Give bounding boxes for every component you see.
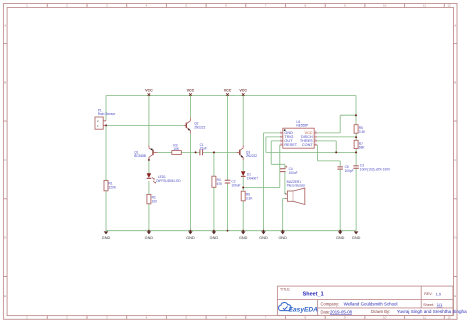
wire rail drop to P1 pin1 bbox=[105, 96, 107, 121]
svg-text:CONT: CONT bbox=[302, 143, 313, 147]
svg-text:100uF: 100uF bbox=[231, 184, 240, 188]
resistor R3 bbox=[172, 143, 182, 154]
wire rail drop through C2 to GND rail bbox=[227, 96, 229, 231]
svg-text:GND: GND bbox=[336, 236, 345, 240]
resistor R5 bbox=[354, 125, 366, 135]
svg-text:NE555P: NE555P bbox=[296, 124, 308, 128]
svg-text:11: 11 bbox=[423, 4, 426, 8]
svg-text:10: 10 bbox=[383, 316, 387, 320]
wire R5 to R7 bbox=[355, 133, 357, 140]
svg-text:GND: GND bbox=[259, 236, 268, 240]
wire C4 to buzzer plus pin bbox=[285, 172, 288, 194]
svg-text:3.3K: 3.3K bbox=[359, 130, 366, 134]
ground 5 bbox=[239, 231, 248, 240]
svg-text:B: B bbox=[454, 81, 456, 85]
wire R3 to C1 bbox=[181, 151, 199, 153]
svg-text:E: E bbox=[454, 294, 456, 298]
svg-text:1N4007: 1N4007 bbox=[247, 176, 258, 180]
svg-text:100: 100 bbox=[152, 200, 158, 204]
wire GND bottom rail bbox=[106, 230, 356, 232]
svg-text:Date:: Date: bbox=[321, 309, 331, 314]
capacitor C3 bbox=[353, 163, 391, 171]
svg-text:12: 12 bbox=[447, 316, 451, 320]
svg-text:DIFFSUD06 LED: DIFFSUD06 LED bbox=[156, 179, 181, 183]
svg-text:VCC: VCC bbox=[145, 88, 153, 92]
svg-text:10: 10 bbox=[383, 4, 387, 8]
wire U1 TRIG pin loop bbox=[266, 137, 280, 153]
resistor R6 bbox=[241, 191, 253, 201]
wire U1 CONT pin to C5 bbox=[318, 145, 341, 167]
capacitor C1 bbox=[200, 143, 207, 156]
wire C1 to Q3 base bbox=[203, 151, 236, 153]
svg-text:12: 12 bbox=[447, 4, 451, 8]
resistor R4 bbox=[212, 176, 223, 187]
svg-text:EasyEDA: EasyEDA bbox=[289, 306, 319, 313]
ground 1 bbox=[102, 231, 111, 240]
svg-text:2019-05-08: 2019-05-08 bbox=[330, 309, 353, 314]
wire D1 to R6 and R6 to GND rail bbox=[242, 177, 244, 231]
transistor Q2 2N2222 bbox=[184, 118, 206, 133]
svg-text:GND: GND bbox=[352, 236, 361, 240]
wire P1 pin2 to Q2 base bbox=[106, 124, 184, 126]
svg-text:220K: 220K bbox=[109, 186, 117, 190]
svg-text:B: B bbox=[4, 81, 6, 85]
svg-text:67K: 67K bbox=[217, 182, 224, 186]
svg-text:Piezo Buzzer: Piezo Buzzer bbox=[287, 183, 307, 187]
wire LED1 to R2 and R2 to GND rail bbox=[148, 181, 150, 231]
svg-text:10K: 10K bbox=[173, 147, 180, 151]
wire R4 column bbox=[213, 152, 215, 230]
ground 6 bbox=[259, 231, 268, 240]
svg-text:E: E bbox=[4, 294, 6, 298]
svg-text:VCC: VCC bbox=[224, 88, 232, 92]
svg-text:11: 11 bbox=[423, 316, 426, 320]
wire R7 to C3 bbox=[355, 149, 357, 166]
wire rail drop to Q1 collector bbox=[148, 96, 150, 146]
svg-text:BC548B: BC548B bbox=[134, 154, 146, 158]
node GND rail junctions bbox=[148, 230, 341, 232]
svg-text:1.0: 1.0 bbox=[436, 292, 441, 296]
op-amp U1 NE555P bbox=[280, 120, 317, 148]
node R4 tap junction bbox=[213, 151, 215, 153]
wire D1/R6 node to U1 RESET drop bbox=[243, 187, 280, 189]
wire buzzer minus pin to GND rail bbox=[283, 199, 286, 231]
svg-text:1/1: 1/1 bbox=[437, 302, 443, 307]
svg-text:GND: GND bbox=[102, 236, 111, 240]
svg-text:2N2222: 2N2222 bbox=[246, 154, 257, 158]
node P1 pin2 junction bbox=[105, 124, 107, 126]
wire Q3 emitter to D1 bbox=[242, 160, 244, 171]
wire C3 to GND rail bbox=[355, 169, 357, 231]
ground 9 bbox=[352, 231, 361, 240]
svg-text:-: - bbox=[285, 197, 286, 201]
wire Q1 base to R3 bbox=[158, 151, 172, 153]
transistor Q3 2N2222 bbox=[236, 145, 257, 160]
power VCC flag 4 bbox=[239, 88, 247, 96]
svg-text:10nF(103) ±5% 100V: 10nF(103) ±5% 100V bbox=[360, 167, 391, 171]
svg-text:GND: GND bbox=[186, 236, 195, 240]
svg-text:Welland Gouldsmith School: Welland Gouldsmith School bbox=[344, 302, 398, 307]
svg-text:Drawn By:: Drawn By: bbox=[371, 309, 390, 314]
LED LED1 bbox=[147, 173, 182, 183]
ground 2 bbox=[145, 231, 154, 240]
wire U1 GND pin to ground bbox=[264, 133, 280, 231]
node VCC pin rail junction bbox=[355, 114, 357, 116]
transistor Q1 BC548B bbox=[134, 145, 157, 160]
ground 4 bbox=[210, 231, 219, 240]
svg-text:68K: 68K bbox=[359, 146, 366, 150]
wire U1 THRES pin jog bbox=[317, 141, 336, 153]
svg-text:3.3K: 3.3K bbox=[246, 197, 253, 201]
resistor R1 bbox=[104, 180, 117, 190]
resistor R2 bbox=[147, 194, 157, 203]
svg-text:REV:: REV: bbox=[424, 292, 432, 296]
svg-text:GND: GND bbox=[145, 236, 154, 240]
node Q1 emitter junction bbox=[148, 159, 150, 161]
power VCC flag 1 bbox=[145, 88, 153, 96]
svg-text:A: A bbox=[4, 24, 6, 28]
svg-text:GND: GND bbox=[210, 236, 219, 240]
svg-text:VCC: VCC bbox=[187, 88, 195, 92]
node C1 left junction bbox=[195, 151, 197, 153]
wire U1 VCC pin to top right bbox=[317, 115, 356, 133]
wire TRIG/THRES long net under U1 bbox=[266, 151, 356, 153]
ground 8 bbox=[336, 231, 345, 240]
svg-text:TITLE:: TITLE: bbox=[280, 288, 291, 292]
wire rail right corner down to R5 bbox=[355, 96, 357, 125]
wire C5 to GND rail bbox=[339, 169, 341, 230]
wire rail drop to Q2 collector bbox=[189, 96, 191, 119]
capacitor C4 polarized bbox=[280, 166, 298, 175]
power VCC flag 3 bbox=[224, 88, 232, 96]
capacitor C5 bbox=[337, 165, 353, 173]
svg-text:100pF: 100pF bbox=[345, 169, 354, 173]
svg-text:A: A bbox=[454, 24, 456, 28]
svg-text:GND: GND bbox=[278, 236, 287, 240]
node R7/C3/TRIG junction bbox=[355, 151, 357, 153]
resistor R7 bbox=[354, 140, 365, 149]
wire Q1 emitter to LED1 bbox=[148, 158, 150, 176]
node D1/R6/OUT junction bbox=[242, 187, 244, 189]
buzzer BUZZER1 bbox=[285, 180, 307, 205]
svg-text:Sheet_1: Sheet_1 bbox=[303, 292, 324, 298]
svg-text:RESET: RESET bbox=[284, 143, 297, 147]
power VCC flag 2 bbox=[187, 88, 195, 96]
connector P1 Rain Sensor bbox=[95, 108, 116, 129]
svg-text:2N2222: 2N2222 bbox=[194, 125, 205, 129]
wire Q2 emitter to GND rail bbox=[189, 133, 191, 231]
wire P1 pin2 down to R1 and R1 to GND rail bbox=[105, 125, 107, 230]
svg-text:Rain Sensor: Rain Sensor bbox=[98, 112, 116, 116]
diode D1 bbox=[241, 171, 258, 180]
wire VCC top rail bbox=[106, 95, 356, 97]
node THRES/TRIG junction bbox=[335, 151, 337, 153]
wire U1 OUT pin down to C4 bbox=[271, 141, 285, 169]
node R5/R7/DISCH junction bbox=[355, 136, 357, 138]
svg-text:22uF: 22uF bbox=[200, 146, 207, 150]
svg-text:VCC: VCC bbox=[239, 88, 247, 92]
ground 7 bbox=[278, 231, 287, 240]
capacitor C2 bbox=[225, 180, 241, 188]
wire rail drop to Q3 collector bbox=[242, 96, 244, 146]
svg-text:100uF: 100uF bbox=[289, 171, 298, 175]
wire U1 RESET pin down bbox=[279, 145, 281, 188]
wire U1 DISCH pin to R5/R7 node bbox=[317, 136, 356, 138]
ground 3 bbox=[186, 231, 195, 240]
EasyEDA logo bbox=[279, 303, 319, 314]
svg-text:Sheet:: Sheet: bbox=[423, 303, 434, 307]
svg-text:Company:: Company: bbox=[321, 302, 340, 307]
svg-text:GND: GND bbox=[239, 236, 248, 240]
svg-text:Yuvraj Singh and Sreshtha Sing: Yuvraj Singh and Sreshtha Singha bbox=[397, 309, 467, 314]
